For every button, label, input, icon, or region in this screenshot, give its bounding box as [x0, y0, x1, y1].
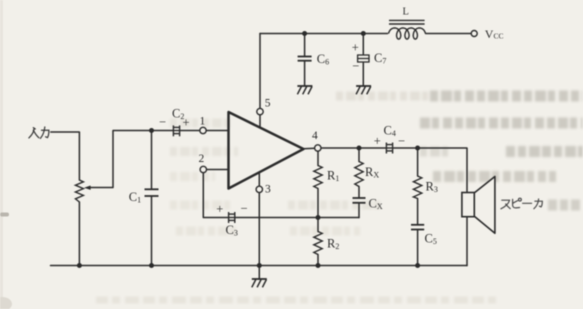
capacitor CX plates — [353, 198, 366, 203]
svg-text:−: − — [398, 134, 405, 148]
pin 2 circle — [200, 166, 206, 172]
wire pin2 to amp — [206, 169, 228, 171]
resistor R3 zigzag — [413, 176, 421, 199]
speaker SP box — [462, 193, 474, 217]
inductor L coil — [389, 28, 426, 39]
wire pin3 to ground rail — [258, 172, 260, 266]
potentiometer VR zigzag — [75, 180, 83, 202]
node top rail C6 junction — [302, 31, 307, 36]
wire inductor to Vcc terminal — [426, 33, 472, 35]
wire R2 column — [317, 218, 319, 266]
wire output line pin4 to C4 — [321, 147, 386, 149]
wire pin1 to amp — [206, 130, 229, 132]
capacitor C4 electrolytic block — [386, 143, 392, 154]
op-amp U1 triangle — [229, 112, 304, 189]
resistor RX zigzag — [355, 162, 363, 187]
capacitor C2 electrolytic block — [173, 125, 179, 136]
svg-text:+: + — [352, 41, 359, 55]
capacitor C5 plates — [411, 225, 424, 230]
pin 1 circle — [200, 127, 206, 133]
Vcc terminal circle — [471, 31, 477, 37]
svg-text:L: L — [403, 7, 409, 18]
svg-text:4: 4 — [312, 130, 318, 142]
wire C4 to speaker branch — [394, 148, 468, 193]
wire input to potentiometer — [51, 132, 80, 180]
svg-text:−: − — [352, 59, 359, 73]
capacitor C6 plates — [298, 57, 312, 61]
node C1 top junction — [149, 128, 154, 133]
wire bottom ground rail — [51, 265, 468, 267]
node top rail C7 junction — [361, 31, 366, 36]
wire C3 to feedback node — [236, 217, 359, 219]
svg-text:+: + — [183, 116, 190, 130]
svg-text:−: − — [159, 115, 166, 129]
node R3 output junction — [415, 146, 420, 151]
ghost print-through text rows (decorative) — [96, 96, 583, 300]
resistor R1 zigzag — [314, 166, 322, 189]
svg-text:2: 2 — [199, 153, 205, 165]
potentiometer wiper arrow — [84, 186, 91, 190]
node RX output junction — [357, 146, 362, 151]
wire speaker to ground rail — [466, 217, 468, 266]
wire CX bottom — [358, 203, 360, 218]
node feedback junction — [316, 215, 321, 220]
capacitor C3 electrolytic block — [229, 212, 235, 223]
wire ground stub below rail — [258, 266, 260, 280]
wire C7 branch — [362, 34, 364, 87]
node rail C1 junction — [149, 263, 154, 268]
wire R3/C5 column — [417, 148, 419, 266]
node rail C5 junction — [415, 263, 420, 268]
pin 5 circle — [257, 108, 263, 114]
wire C6 branch — [304, 34, 306, 87]
wire C1 branch — [151, 131, 153, 266]
svg-text:−: − — [241, 202, 248, 216]
wire amp output to pin4 — [304, 147, 315, 149]
svg-text:1: 1 — [200, 116, 206, 128]
ground at C6 — [297, 86, 312, 94]
wire R1 column — [317, 151, 319, 217]
resistor R2 zigzag — [314, 232, 322, 255]
pin 3 circle — [256, 186, 262, 192]
capacitor C7 electrolytic block — [357, 55, 370, 62]
pin 4 circle — [315, 145, 321, 151]
node rail R2 junction — [316, 263, 321, 268]
wire top supply rail — [260, 33, 388, 35]
svg-text:+: + — [374, 134, 381, 148]
svg-text:+: + — [216, 202, 223, 216]
wire pin2 down to C3 — [203, 173, 227, 218]
inductor L core lines — [389, 20, 425, 24]
wire C2 to pin1 — [181, 130, 201, 132]
wire potentiometer bottom to ground rail — [78, 202, 80, 266]
wire pin5 vertical — [259, 34, 261, 128]
ground below bottom rail — [252, 279, 267, 287]
wire RX/CX column — [358, 148, 360, 198]
capacitor C1 plates — [145, 189, 159, 196]
node rail pot junction — [77, 263, 82, 268]
label input (nyuuryoku) kanji strokes — [29, 127, 49, 138]
ground at C7 — [356, 86, 371, 94]
svg-text:3: 3 — [265, 184, 271, 196]
wire wiper to C1/C2 line — [90, 131, 173, 188]
node rail ground junction — [257, 263, 262, 268]
speaker SP cone — [474, 177, 495, 234]
svg-text:5: 5 — [265, 98, 271, 110]
label speaker (supiika) katakana strokes — [501, 198, 542, 209]
